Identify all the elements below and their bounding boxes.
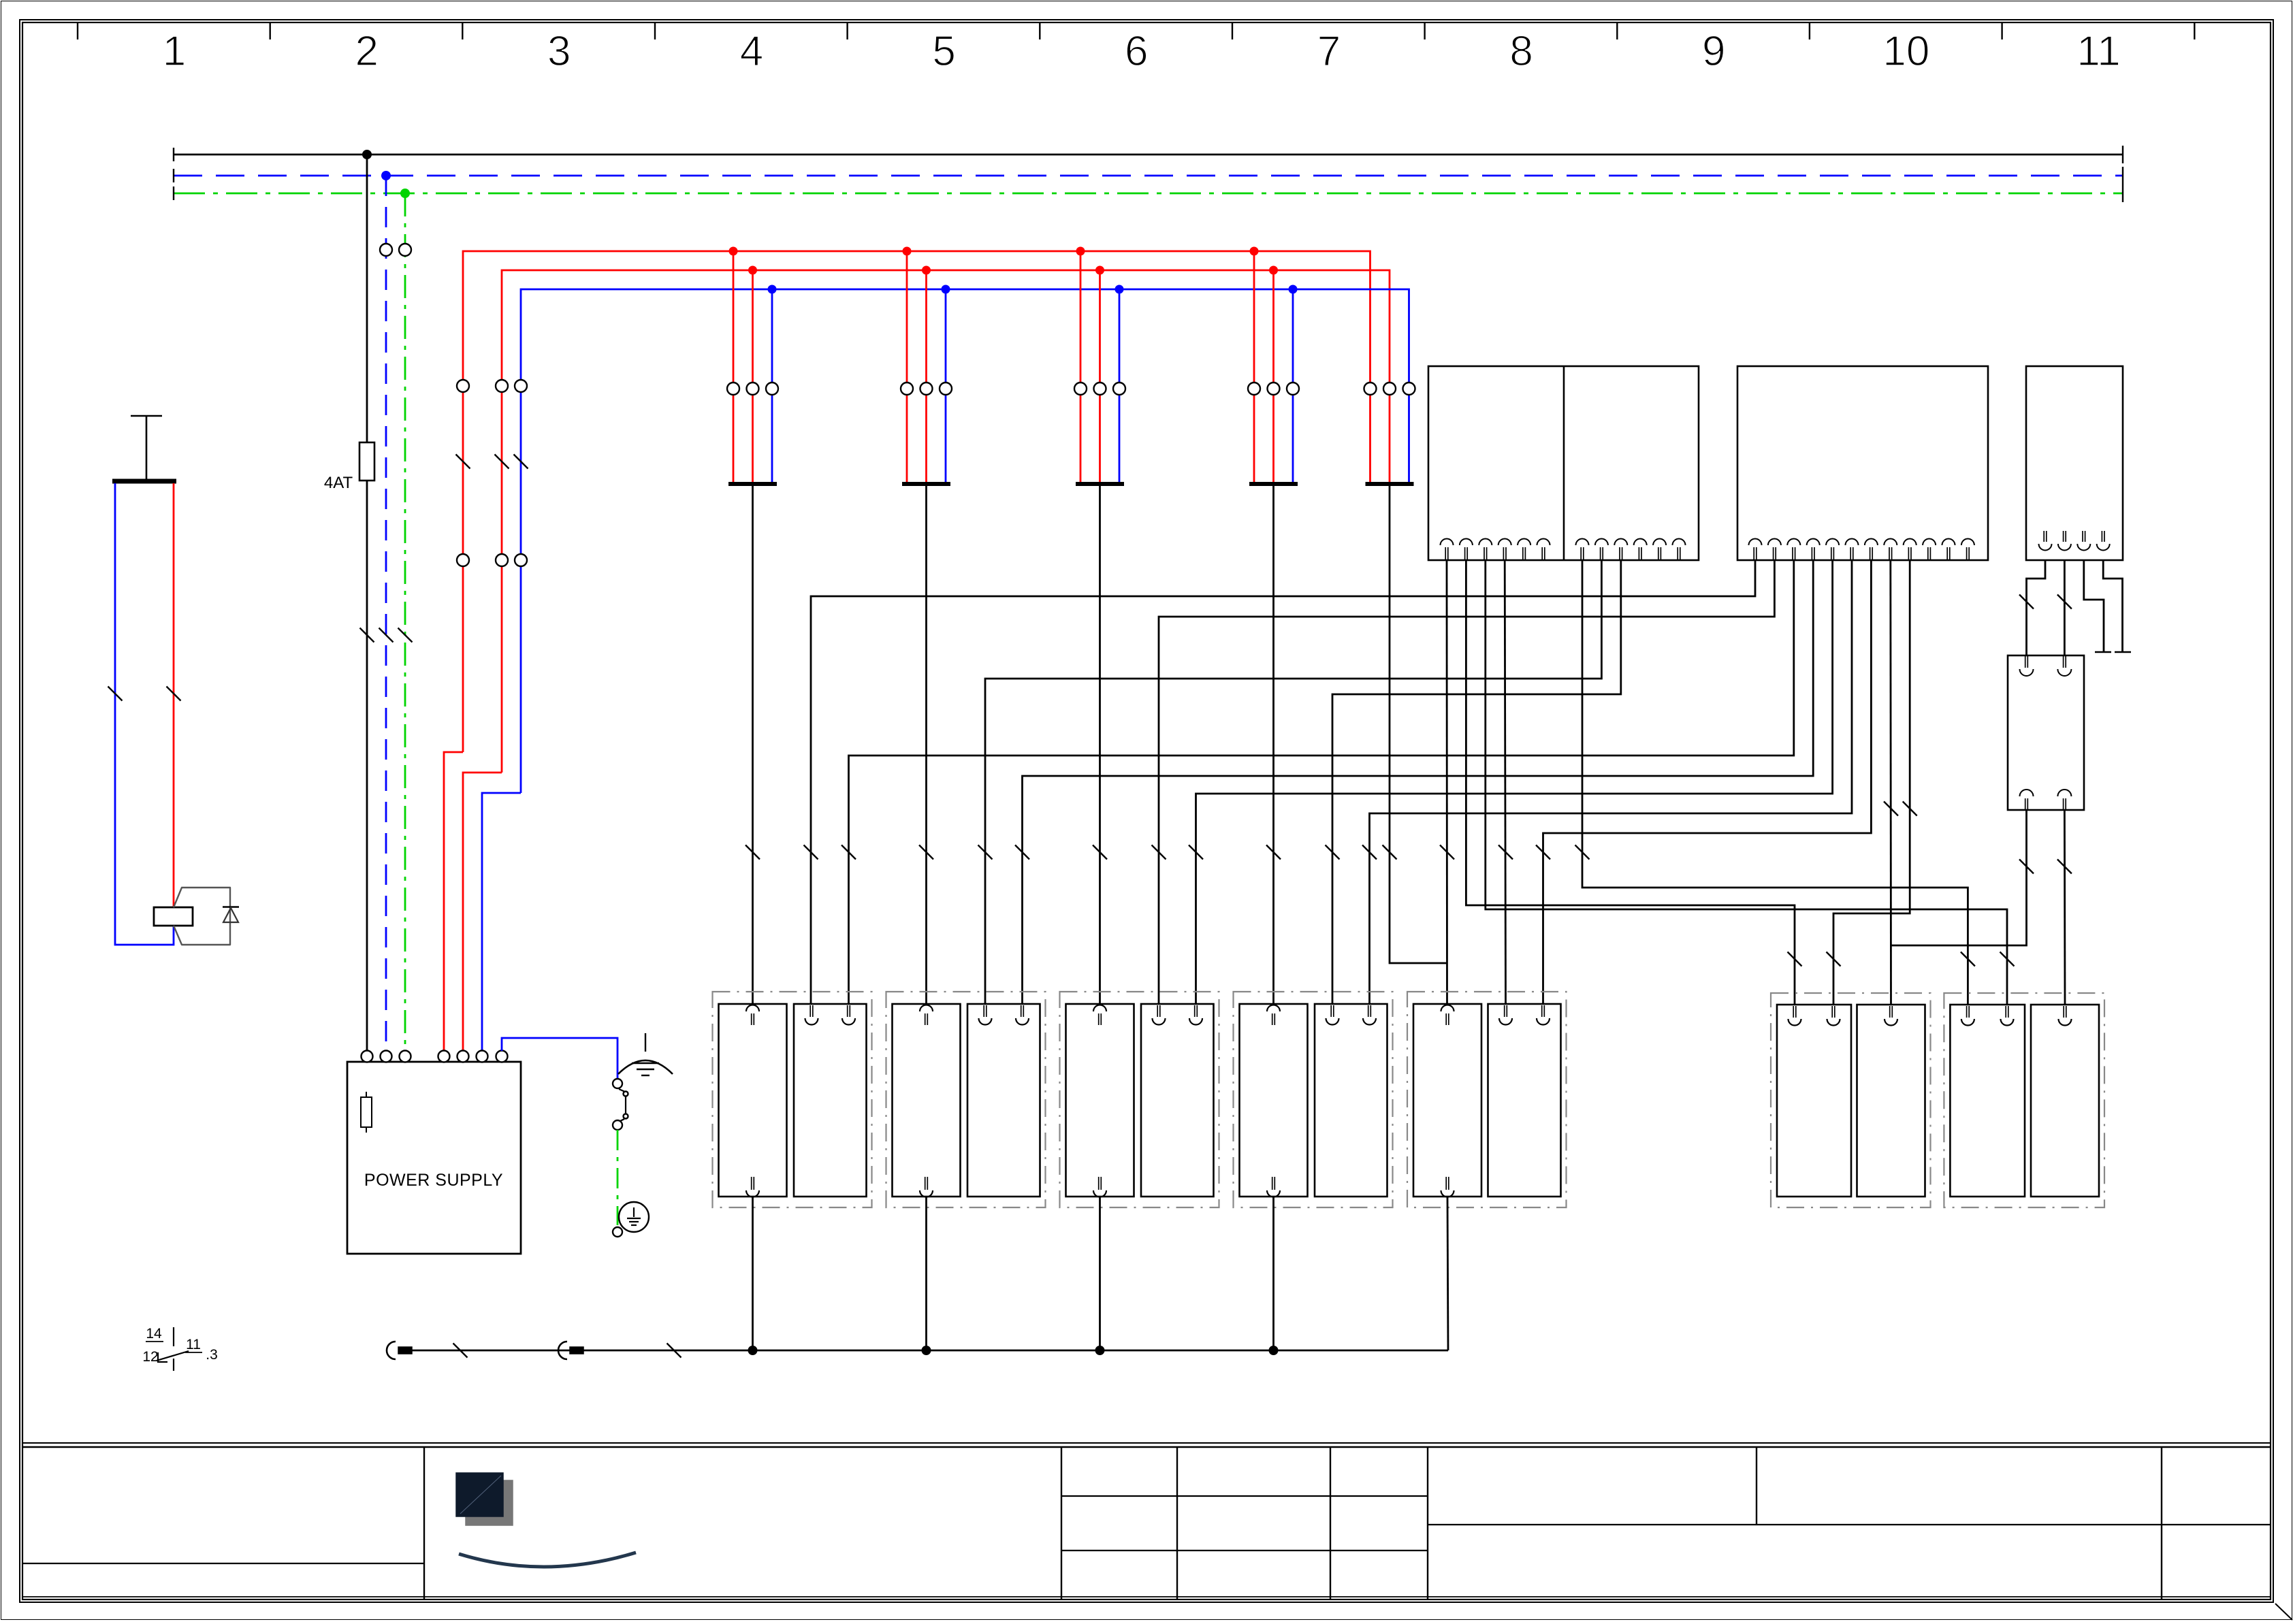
- wire U2 pin4 to connector B2b: [1023, 559, 1814, 1005]
- wire bar3 slash: [1093, 845, 1107, 860]
- wire U2 pin1 to connector B1a: [811, 559, 1755, 1005]
- contact upper terminal line: [173, 1327, 174, 1346]
- connector X4a box: [1240, 1004, 1308, 1197]
- svg-text:POWER SUPPLY: POWER SUPPLY: [364, 1171, 503, 1190]
- wire N terminal circle: [380, 244, 392, 256]
- bottom bus junction dot 4: [1269, 1346, 1279, 1355]
- wire slash U1 pin8 to connector B2a: [978, 845, 993, 860]
- bus PE start tick: [173, 186, 174, 200]
- wire U1 pin4 to connector B5a: [1505, 559, 1505, 1005]
- drop group 1 blue wire: [771, 289, 773, 484]
- connector X4b pin 1: [1330, 1005, 1332, 1017]
- wire bar2 slash: [919, 845, 933, 860]
- bottom bus junction dot 3: [1095, 1346, 1105, 1355]
- connector group X1 dashed enclosure: [713, 992, 872, 1207]
- connector group X4 dashed enclosure: [1234, 992, 1393, 1207]
- svg-text:4AT: 4AT: [324, 474, 353, 492]
- module box U1 divider: [1563, 366, 1565, 560]
- feed red1 terminal circles: [457, 380, 469, 392]
- wire bar2 to connector A2: [925, 486, 927, 1004]
- feed blue jog to power supply: [482, 793, 521, 1051]
- wire PE slash mark: [398, 628, 413, 643]
- drop group 3 blue wire: [1119, 289, 1121, 484]
- contactor red wire: [173, 483, 175, 907]
- bus 24V+ upper (red): [463, 251, 1370, 752]
- drop group 2 blue wire: [945, 289, 947, 484]
- bottom bus cable marker 1 arc: [387, 1342, 396, 1359]
- wire bar1 slash: [745, 845, 760, 860]
- drop group 4 terminal bar: [1249, 482, 1298, 486]
- slash U2 pin8 wire: [1884, 802, 1898, 816]
- wire U1 pin2 to connector R2a pin1 (long): [1466, 559, 1795, 1005]
- connector group X5 dashed enclosure: [1407, 992, 1567, 1207]
- wire connector A5 to bottom bus: [1447, 1197, 1448, 1350]
- connector X4a bottom pin: [1272, 1177, 1273, 1190]
- bus PE end tick: [2122, 184, 2123, 202]
- bus N end tick: [2122, 167, 2123, 184]
- wire L slash mark: [360, 628, 374, 643]
- connector group X3 dashed enclosure: [1060, 992, 1219, 1207]
- drop group 3 red wire 2: [1099, 270, 1101, 484]
- bus 24V+ lower (red): [502, 270, 1390, 773]
- drop group 2 terminal bar: [902, 482, 950, 486]
- bottom bus cable marker 2 lug: [570, 1347, 583, 1354]
- module U3 pins: [2039, 531, 2110, 551]
- feed red1 jog to power supply: [444, 752, 463, 1051]
- drop group 3 terminal circles: [1074, 383, 1087, 395]
- wire L vertical (black) to power supply: [366, 155, 368, 1051]
- drop group 4 junction dots: [1250, 247, 1259, 256]
- wire U2 pin7 to connector B5b: [1543, 559, 1872, 1005]
- connector X5a top pin: [1441, 1005, 1454, 1012]
- connector X5a bottom pin: [1445, 1177, 1447, 1190]
- feed blue terminal circles: [515, 380, 527, 392]
- svg-text:12: 12: [142, 1349, 158, 1365]
- wire U1 pin1 to connector A5: [1446, 559, 1448, 1004]
- connector X5a box: [1413, 1004, 1481, 1197]
- svg-text:14: 14: [146, 1326, 162, 1342]
- connector Y2a pin 1: [1966, 1006, 1968, 1018]
- slash R2a1 drop: [1961, 952, 1975, 967]
- coil-diode loop: [174, 888, 230, 945]
- wire bar1 to connector A1: [752, 486, 754, 1004]
- earth wire end circle: [613, 1227, 622, 1237]
- connector X2b box: [967, 1004, 1040, 1197]
- connector X4a top pin: [1267, 1005, 1280, 1012]
- wire PE terminal circle: [399, 244, 411, 256]
- wire N slash mark: [379, 628, 394, 643]
- wire bar5 slash: [1383, 845, 1397, 860]
- logo dark square: [456, 1473, 513, 1525]
- bottom bus wire: [412, 1350, 1448, 1352]
- bus L (black): [174, 154, 2123, 156]
- slash U2 pin9 wire: [1903, 802, 1917, 816]
- wire U2 pin8 to connector R1b: [1889, 559, 1891, 1005]
- drop group 3 terminal bar: [1076, 482, 1124, 486]
- svg-text:7: 7: [1317, 28, 1341, 75]
- wire U1 pin7 to connector R2a pin1: [1582, 559, 1968, 1005]
- svg-text:11: 11: [2076, 28, 2120, 75]
- drop group 1 terminal bar: [728, 482, 777, 486]
- wire slash U2 pin5 to connector B3b: [1189, 845, 1203, 860]
- wire bar4 to connector A4: [1272, 486, 1274, 1004]
- wire bar4 slash: [1266, 845, 1281, 860]
- drop group 3 junction dots: [1076, 247, 1085, 256]
- drop group 1 red wire 2: [752, 270, 754, 484]
- wire U3 pin4 stub: [2103, 559, 2122, 652]
- bottom right corner diagonal: [2275, 1604, 2292, 1620]
- drop group 4 blue wire: [1292, 289, 1294, 484]
- wire N vertical (blue dashed): [385, 176, 387, 1051]
- connector X5b pin 1: [1504, 1005, 1505, 1017]
- earth link switch: [613, 1079, 622, 1088]
- drop group 5 terminal bar: [1366, 482, 1414, 486]
- wide cell row line: [1428, 1524, 2271, 1525]
- svg-text:8: 8: [1509, 28, 1533, 75]
- bus N start tick: [173, 169, 174, 182]
- connector group Y1 dashed enclosure: [1771, 993, 1931, 1207]
- module U1 left pins: [1441, 539, 1550, 560]
- contactor top bar: [112, 479, 176, 484]
- connector X3a bottom pin: [1098, 1177, 1100, 1190]
- connector Y1b box: [1857, 1005, 1925, 1197]
- svg-text:4: 4: [740, 28, 763, 75]
- contactor slash right: [167, 687, 181, 701]
- connector X1a top pin: [746, 1005, 759, 1012]
- connector X1b pin 1: [809, 1005, 811, 1017]
- wire slash U2 pin2 to connector B3a: [1152, 845, 1166, 860]
- connector X1b box: [794, 1004, 867, 1197]
- wire slash U2 pin1 to connector B1a: [804, 845, 818, 860]
- svg-text:3: 3: [547, 28, 571, 75]
- wire slash U2 pin6 to connector B4b: [1362, 845, 1377, 860]
- power supply internal fuse: [366, 1092, 367, 1133]
- title block vertical divider x=3175: [2161, 1447, 2162, 1599]
- module U1 right pins: [1576, 539, 1686, 560]
- drop group 2 red wire 1: [906, 251, 908, 484]
- connector X5b pin 2: [1541, 1005, 1543, 1017]
- connector X2a bottom pin: [925, 1177, 926, 1190]
- drop group 3 red wire 1: [1080, 251, 1082, 484]
- fuse 4AT: [359, 442, 374, 481]
- wire U1 pin3 to connector R2b pin2 (long): [1486, 559, 2007, 1005]
- slash relay feed right: [2057, 595, 2072, 609]
- title block top border (drawing area bottom): [22, 1442, 2271, 1444]
- wire bar5 with jog to connector A5: [1390, 486, 1447, 963]
- drop group 4 red wire 2: [1272, 270, 1274, 484]
- connector X3b box: [1141, 1004, 1214, 1197]
- wire U2 pin3 to connector B1b: [849, 559, 1794, 1005]
- connector X3b pin 1: [1157, 1005, 1158, 1017]
- slash R1a1 drop: [1788, 952, 1802, 967]
- module box U2: [1737, 366, 1988, 560]
- title block vertical divider x=2097: [1427, 1447, 1428, 1599]
- drop group 4 terminal circles: [1248, 383, 1260, 395]
- wire U1 pin9 to connector B4a: [1332, 559, 1621, 1005]
- bottom bus junction dot 1: [748, 1346, 758, 1355]
- relay K1 top pins: [2025, 656, 2026, 668]
- bus 0V (blue): [521, 289, 1409, 793]
- wire U2 pin6 to connector B4b: [1370, 559, 1853, 1005]
- chassis ground symbol: [645, 1033, 646, 1052]
- connector X2a box: [893, 1004, 961, 1197]
- bottom bus slash 2: [667, 1344, 682, 1358]
- bottom bus junction dot 2: [922, 1346, 931, 1355]
- bottom bus slash 1: [453, 1344, 468, 1358]
- drop group 2 terminal circles: [901, 383, 913, 395]
- connector Y2b pin: [2063, 1006, 2064, 1018]
- module box U1: [1428, 366, 1699, 560]
- power supply terminals: [362, 1051, 508, 1062]
- drop group 2 red wire 2: [925, 270, 927, 484]
- column ruler ticks: [78, 22, 2194, 39]
- svg-text:5: 5: [932, 28, 955, 75]
- title block vertical divider x=1559: [1061, 1447, 1062, 1599]
- connector Y1b pin: [1889, 1006, 1891, 1018]
- wire slash U2 pin4 to connector B2b: [1015, 845, 1029, 860]
- connector X3a box: [1066, 1004, 1134, 1197]
- feed red2 jog to power supply: [463, 773, 502, 1051]
- module box U3: [2026, 366, 2123, 560]
- revision table row line 1: [1061, 1495, 1428, 1497]
- drop group 2 junction dots: [903, 247, 912, 256]
- drop group 5 terminal circles: [1364, 383, 1377, 395]
- connector group Y2 dashed enclosure: [1944, 993, 2104, 1207]
- column numbers 1-11: [163, 28, 2121, 75]
- wire U3 pin1 to relay top left: [2027, 559, 2046, 655]
- bus N (blue dashed): [174, 175, 2123, 177]
- bottom bus cable marker 2 arc: [558, 1342, 567, 1359]
- relay coil K0: [154, 907, 193, 926]
- contact blade: [157, 1351, 189, 1361]
- feed red2 terminal circles: [496, 380, 508, 392]
- wire U2 pin9 to connector R1a pin2: [1833, 559, 1910, 1005]
- slash U1 pin1 wire: [1440, 845, 1454, 860]
- wire connector A2 to bottom bus: [925, 1197, 927, 1350]
- connector X2b pin 2: [1021, 1005, 1022, 1017]
- svg-text:2: 2: [355, 28, 378, 75]
- connector Y1a box: [1777, 1005, 1851, 1197]
- bottom bus cable marker 1 lug: [398, 1347, 412, 1354]
- title block vertical divider x=623: [423, 1447, 425, 1599]
- suppressor diode: [223, 906, 239, 907]
- wire U2 pin5 to connector B3b: [1196, 559, 1833, 1005]
- title block vertical divider x=1729: [1176, 1447, 1178, 1599]
- slash R2a2 drop: [2000, 952, 2015, 967]
- wire PSU to earth switch (blue): [502, 1038, 618, 1079]
- slash R1a2 drop: [1827, 952, 1841, 967]
- antenna terminal: [131, 415, 162, 417]
- svg-text:10: 10: [1882, 28, 1929, 75]
- earth electrode symbol: [619, 1202, 649, 1232]
- relay box K1: [2008, 655, 2084, 810]
- wire slash U1 pin9 to connector B4a: [1326, 845, 1340, 860]
- connector X4b pin 2: [1368, 1005, 1369, 1017]
- wire U3 pin2 to relay top right: [2064, 559, 2066, 655]
- svg-text:.3: .3: [206, 1347, 218, 1363]
- svg-text:9: 9: [1702, 28, 1725, 75]
- title block vertical divider x=2580 (partial): [1756, 1447, 1757, 1525]
- relay K1 bottom pins: [2020, 790, 2034, 796]
- wire U2 pin2 to connector B3a: [1159, 559, 1774, 1005]
- connector X3a top pin: [1093, 1005, 1106, 1012]
- svg-text:11: 11: [186, 1337, 201, 1352]
- wire switch to earth (green dash-dot): [617, 1130, 619, 1225]
- connector X2a top pin: [920, 1005, 933, 1012]
- wire slash U2 pin3 to connector B1b: [841, 845, 856, 860]
- connector X1b pin 2: [847, 1005, 848, 1017]
- bus L end tick: [2122, 146, 2123, 163]
- slash relay feed left: [2019, 595, 2034, 609]
- junction N: [381, 171, 391, 180]
- module U2 pins: [1749, 539, 1974, 560]
- contactor blue wire: [115, 483, 174, 945]
- connector X3b pin 2: [1194, 1005, 1196, 1017]
- logo smile curve: [459, 1553, 636, 1567]
- title block vertical divider x=1954: [1330, 1447, 1331, 1599]
- wire connector A4 to bottom bus: [1272, 1197, 1274, 1350]
- wire connector A1 to bottom bus: [752, 1197, 754, 1350]
- connector X5b box: [1488, 1004, 1561, 1197]
- contact hook: [158, 1352, 167, 1362]
- slash relay out left: [2019, 860, 2034, 874]
- slash relay out right: [2057, 860, 2072, 874]
- connector X1a bottom pin: [751, 1177, 752, 1190]
- connector X2b pin 1: [983, 1005, 984, 1017]
- bus L start tick: [173, 148, 174, 161]
- drop group 1 red wire 1: [733, 251, 735, 484]
- title block bottom inner line: [22, 1596, 2271, 1597]
- svg-text:1: 1: [163, 28, 186, 75]
- feed slash marks: [456, 455, 470, 469]
- power supply box: [347, 1062, 521, 1254]
- drop group 4 red wire 1: [1253, 251, 1255, 484]
- wire U1 pin8 to connector B2a: [985, 559, 1601, 1005]
- junction L: [362, 150, 372, 159]
- wire relay bottom right to connector R2b: [2064, 811, 2066, 1005]
- slash U1 pin7 wire: [1575, 845, 1590, 860]
- connector Y1a pin 2: [1831, 1006, 1833, 1018]
- slash U1 pin4 wire: [1498, 845, 1513, 860]
- connector Y1a pin 1: [1793, 1006, 1794, 1018]
- junction PE: [400, 189, 410, 198]
- contact lower terminal line: [173, 1359, 174, 1371]
- revision table row line 2: [1061, 1550, 1428, 1551]
- connector X4b box: [1315, 1004, 1388, 1197]
- wire bar3 to connector A3: [1099, 486, 1101, 1004]
- connector group X2 dashed enclosure: [886, 992, 1046, 1207]
- wire U3 pin3 stub: [2084, 559, 2104, 652]
- wire PE vertical (green dash-dot): [404, 193, 406, 1051]
- left cell row line: [22, 1563, 424, 1564]
- bus PE (green dash-dot): [174, 193, 2123, 195]
- svg-text:6: 6: [1125, 28, 1148, 75]
- U3 pin4 stub end bar: [2115, 651, 2131, 653]
- wire slash U2 pin7 to connector B5b: [1536, 845, 1550, 860]
- connector X1a box: [719, 1004, 787, 1197]
- wire connector A3 to bottom bus: [1099, 1197, 1101, 1350]
- contactor slash left: [108, 687, 123, 701]
- U3 pin3 stub end bar: [2095, 651, 2111, 653]
- connector Y2b box: [2031, 1005, 2099, 1197]
- connector Y2a box: [1950, 1005, 2025, 1197]
- connector Y2a pin 2: [2005, 1006, 2006, 1018]
- wire relay bottom left to connector R1b: [1891, 811, 2027, 945]
- drop group 1 junction dots: [729, 247, 738, 256]
- drop group 1 terminal circles: [727, 383, 739, 395]
